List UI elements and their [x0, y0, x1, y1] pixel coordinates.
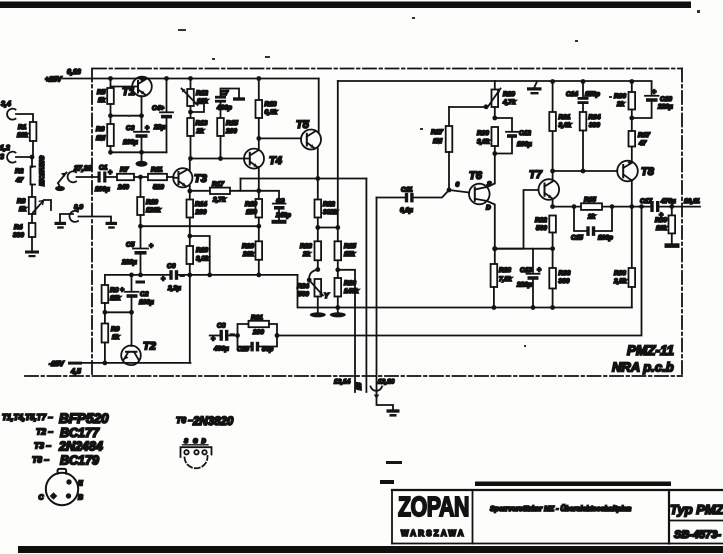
- svg-text:R19: R19: [245, 201, 257, 208]
- svg-text:100µ: 100µ: [123, 139, 138, 146]
- svg-text:+: +: [108, 170, 112, 177]
- svg-text:100µ: 100µ: [517, 141, 532, 148]
- svg-text:R35: R35: [584, 197, 596, 204]
- svg-text:R18: R18: [265, 101, 277, 108]
- wire row y312: [105, 311, 132, 313]
- svg-text:R20: R20: [242, 243, 254, 250]
- resistor R30: [477, 127, 498, 156]
- svg-text:2N3820: 2N3820: [192, 416, 234, 428]
- capacitor C11: [377, 187, 450, 215]
- svg-text:T6 –: T6 –: [176, 415, 193, 425]
- wire connector 13,14 line: [338, 270, 355, 392]
- wire right top rail: [338, 80, 652, 82]
- svg-text:T6: T6: [469, 170, 483, 182]
- svg-text:T7: T7: [529, 169, 543, 181]
- connector 8,9 shield: [55, 204, 118, 229]
- svg-text:R36: R36: [614, 93, 626, 100]
- svg-text:240p: 240p: [275, 212, 291, 219]
- potentiometer R3: [17, 197, 51, 223]
- svg-text:G: G: [193, 439, 198, 445]
- resistor R18: [256, 76, 278, 141]
- resistor R15: [217, 118, 238, 161]
- wire T6 source to R30 node: [487, 154, 495, 188]
- svg-text:47: 47: [15, 177, 24, 184]
- svg-text:C5: C5: [126, 242, 135, 249]
- svg-text:T8 –: T8 –: [32, 455, 49, 465]
- svg-text:C10: C10: [237, 346, 249, 353]
- note NRA p.c.b: [612, 360, 674, 375]
- svg-text:400p: 400p: [216, 105, 232, 112]
- svg-text:NRA p.c.b: NRA p.c.b: [612, 360, 674, 375]
- resistor R27: [431, 107, 452, 192]
- connector 3,4: [1, 101, 33, 122]
- svg-text:2,7k: 2,7k: [212, 197, 226, 204]
- svg-text:15: 15: [356, 382, 363, 390]
- svg-text:PMZ-11: PMZ-11: [627, 343, 674, 358]
- svg-text:D: D: [486, 205, 491, 212]
- svg-text:C14: C14: [566, 91, 578, 98]
- svg-text:T5: T5: [296, 119, 310, 131]
- wire row R22 bottom: [318, 225, 340, 230]
- resistor R37: [629, 131, 651, 147]
- svg-text:C15: C15: [571, 235, 583, 242]
- wire row y248: [495, 248, 553, 250]
- svg-text:7,5k: 7,5k: [499, 276, 512, 283]
- svg-text:470µ: 470µ: [660, 198, 676, 205]
- svg-text:22µ: 22µ: [153, 124, 165, 131]
- capacitor C16: [632, 82, 673, 119]
- svg-text:100p: 100p: [598, 235, 613, 242]
- wire bottom rail y307: [298, 275, 632, 308]
- svg-text:+: +: [161, 276, 165, 283]
- dash-dot pcb frame bottom: [25, 375, 682, 377]
- svg-text:2k: 2k: [196, 128, 205, 135]
- top border bar: [0, 2, 691, 9]
- svg-text:R30: R30: [477, 130, 489, 137]
- svg-text:8,9: 8,9: [74, 204, 83, 211]
- svg-text:R8: R8: [110, 287, 119, 294]
- svg-text:R15: R15: [226, 120, 238, 127]
- svg-text:T8: T8: [641, 166, 655, 178]
- svg-text:10k: 10k: [17, 132, 28, 139]
- svg-text:1M: 1M: [433, 138, 443, 145]
- potentiometer R12: [182, 76, 209, 114]
- capacitor C13: [516, 249, 541, 310]
- wire R16 column to -25V: [189, 275, 191, 363]
- svg-text:BC179: BC179: [60, 454, 99, 468]
- legend line4: [32, 454, 99, 468]
- wire base row T4: [191, 158, 245, 160]
- wire negative row y275: [105, 273, 298, 278]
- pinout TO18 case: [39, 469, 84, 505]
- svg-text:R13: R13: [196, 120, 208, 127]
- svg-text:150p: 150p: [585, 91, 600, 98]
- resistor R10: [137, 177, 161, 229]
- ground blob T1 cell: [136, 152, 148, 167]
- wire row y226: [141, 225, 259, 227]
- resistor R7: [117, 167, 148, 192]
- transistor T3: [173, 159, 207, 194]
- svg-text:3: 3: [0, 154, 4, 161]
- svg-text:R3: R3: [17, 198, 26, 205]
- resistor R2 bracket: [15, 157, 35, 197]
- label 10,11 output: [684, 198, 700, 205]
- resistor R11: [148, 167, 174, 192]
- legend T6 type: [176, 415, 234, 428]
- svg-text:560: 560: [298, 291, 309, 298]
- svg-text:R31: R31: [559, 114, 571, 121]
- svg-text:EICHUNG: EICHUNG: [39, 156, 46, 186]
- connector 1,2: [0, 141, 34, 163]
- resistor R14: [187, 191, 208, 238]
- node -25V rail: [49, 361, 191, 376]
- svg-text:4,7k: 4,7k: [502, 99, 516, 106]
- capacitor C9: [259, 191, 291, 224]
- svg-text:20k: 20k: [242, 251, 254, 258]
- svg-text:R25: R25: [344, 243, 356, 250]
- capacitor C17: [640, 198, 676, 219]
- transistor T7: [495, 82, 559, 249]
- svg-text:1k: 1k: [98, 97, 106, 104]
- svg-text:R38: R38: [614, 270, 626, 277]
- capacitor C1: [95, 165, 117, 194]
- svg-text:100µ: 100µ: [139, 299, 154, 306]
- svg-text:13,14: 13,14: [334, 379, 351, 386]
- svg-text:R4: R4: [14, 224, 23, 231]
- svg-text:T3 –: T3 –: [34, 441, 51, 451]
- svg-text:3,6k: 3,6k: [477, 139, 490, 146]
- svg-text:0,16: 0,16: [67, 69, 81, 76]
- title block ink smudge: [380, 480, 671, 486]
- resistor R25: [335, 81, 357, 272]
- svg-text:E: E: [78, 481, 83, 488]
- svg-text:R12: R12: [196, 90, 208, 97]
- svg-text:C4+: C4+: [152, 105, 164, 112]
- ground top right rail: [527, 82, 542, 95]
- wire output row: [553, 204, 700, 209]
- svg-text:120k: 120k: [146, 207, 161, 214]
- svg-text:R23: R23: [300, 243, 312, 250]
- svg-text:400µ: 400µ: [213, 346, 229, 353]
- resistor R32: [535, 216, 556, 252]
- svg-text:220µ: 220µ: [121, 259, 137, 266]
- label EICHUNG: [39, 156, 46, 186]
- transistor T1: [111, 76, 152, 116]
- svg-text:Sperrverstärker MZ - Übersicht: Sperrverstärker MZ - Übersichtsschaltpla…: [490, 504, 631, 513]
- svg-text:4,5: 4,5: [70, 369, 81, 376]
- logo ZOPAN: [398, 491, 469, 523]
- wire emitter row T1: [108, 113, 144, 118]
- svg-text:0,1µ: 0,1µ: [400, 207, 413, 214]
- resistor R36: [614, 79, 635, 131]
- svg-text:R2: R2: [15, 168, 24, 175]
- resistor R1: [17, 122, 36, 141]
- capacitor C8: [210, 323, 238, 353]
- svg-text:T2: T2: [143, 341, 156, 353]
- svg-text:6: 6: [456, 182, 460, 189]
- svg-text:R27: R27: [431, 129, 443, 136]
- svg-text:240: 240: [117, 184, 129, 191]
- capacitor C7: [215, 89, 245, 119]
- capacitor C2: [120, 275, 154, 315]
- svg-text:R16: R16: [196, 247, 208, 254]
- svg-text:200: 200: [252, 329, 264, 336]
- svg-text:R32: R32: [535, 217, 547, 224]
- svg-text:2,2µ: 2,2µ: [167, 285, 181, 292]
- svg-text:2k: 2k: [587, 214, 596, 221]
- wire feedback row y178: [241, 176, 367, 181]
- svg-text:R14: R14: [195, 201, 207, 208]
- svg-text:47: 47: [638, 140, 647, 147]
- svg-text:WARSZAWA: WARSZAWA: [401, 529, 466, 538]
- svg-text:1k: 1k: [112, 334, 120, 341]
- capacitor C12: [495, 118, 532, 154]
- wire connector 12,16 line: [376, 198, 378, 393]
- svg-text:11k: 11k: [110, 295, 121, 302]
- pinout 2N3820 package: [181, 439, 212, 468]
- resistor R16 with bypass loop: [187, 236, 213, 277]
- svg-text:R5: R5: [97, 89, 106, 96]
- transistor T6 fet: [449, 170, 492, 212]
- svg-text:3,4: 3,4: [1, 101, 11, 108]
- svg-text:392k: 392k: [323, 209, 338, 216]
- logo WARSZAWA: [401, 529, 466, 538]
- svg-text:ZOPAN: ZOPAN: [398, 491, 469, 523]
- resistor R31: [549, 79, 571, 131]
- wire lower row T1 cell: [108, 150, 166, 155]
- svg-text:2,5k: 2,5k: [613, 278, 627, 285]
- svg-text:R28: R28: [499, 267, 511, 274]
- resistor R33: [549, 249, 571, 310]
- resistor R4: [13, 223, 35, 250]
- note PMZ-11: [627, 343, 674, 358]
- capacitor C5: [121, 226, 153, 283]
- svg-text:R33: R33: [559, 270, 571, 277]
- svg-text:10,11: 10,11: [684, 198, 700, 205]
- svg-text:300: 300: [559, 278, 570, 285]
- svg-text:−: −: [180, 273, 184, 280]
- resistor R34: [580, 112, 601, 173]
- svg-text:BFP520: BFP520: [59, 411, 109, 426]
- svg-text:1M: 1M: [96, 135, 106, 142]
- transistor T5: [259, 79, 321, 179]
- svg-text:C6: C6: [167, 263, 176, 270]
- capacitor C15: [571, 207, 613, 242]
- resistor R8: [102, 275, 121, 315]
- svg-text:R37: R37: [638, 132, 650, 139]
- legend line3: [34, 440, 103, 454]
- resistor R35: [581, 197, 602, 221]
- resistor R23: [300, 228, 321, 272]
- dash-dot pcb frame right: [681, 69, 683, 377]
- legend line2: [36, 426, 100, 440]
- ground under R4: [25, 251, 39, 258]
- title text: [490, 504, 631, 513]
- svg-text:C8: C8: [217, 323, 226, 330]
- svg-text:2k: 2k: [616, 101, 625, 108]
- svg-text:R7: R7: [120, 167, 129, 174]
- svg-text:C12: C12: [519, 130, 531, 137]
- type PMZ text: [670, 502, 723, 517]
- eichung probe arrow: [55, 173, 67, 192]
- resistor R6: [96, 116, 114, 153]
- svg-text:330: 330: [589, 122, 600, 129]
- svg-text:S: S: [184, 439, 188, 445]
- svg-text:SB-4573-: SB-4573-: [674, 529, 721, 541]
- legend line1: [2, 411, 109, 426]
- svg-text:Typ PMZ-: Typ PMZ-: [670, 502, 723, 517]
- svg-text:C1: C1: [99, 165, 108, 172]
- transistor T8: [617, 147, 655, 210]
- svg-text:D: D: [202, 439, 207, 445]
- svg-text:560: 560: [536, 225, 547, 232]
- svg-text:B: B: [78, 495, 83, 502]
- resistor R26: [330, 270, 359, 318]
- svg-text:10k: 10k: [656, 225, 667, 232]
- svg-text:T1: T1: [122, 86, 135, 98]
- svg-text:R6: R6: [96, 126, 105, 133]
- svg-text:T3: T3: [194, 173, 207, 185]
- capacitor C14: [566, 79, 600, 112]
- svg-text:T4: T4: [269, 155, 282, 167]
- svg-text:3,8k: 3,8k: [196, 256, 209, 263]
- dash-dot pcb frame left: [91, 69, 93, 377]
- svg-text:C11: C11: [401, 187, 413, 194]
- svg-text:200: 200: [225, 128, 237, 135]
- title block frame: [392, 490, 723, 544]
- resistor R38: [613, 207, 635, 308]
- svg-text:R29: R29: [503, 91, 515, 98]
- svg-text:R9: R9: [111, 326, 120, 333]
- svg-text:6,8k: 6,8k: [265, 109, 278, 116]
- svg-text:56p: 56p: [262, 346, 273, 353]
- svg-text:510: 510: [153, 184, 164, 191]
- wire T6 drain to T7 base node: [487, 201, 497, 251]
- svg-text:143k: 143k: [344, 288, 359, 295]
- wire feedback bottom y335: [277, 207, 642, 336]
- svg-text:R11: R11: [151, 167, 163, 174]
- svg-text:R39: R39: [655, 217, 667, 224]
- svg-text:1k: 1k: [19, 206, 27, 213]
- node +25V rail: [45, 69, 319, 84]
- scan noise specks: [128, 10, 700, 464]
- svg-text:+: +: [120, 287, 124, 294]
- svg-text:T2 –: T2 –: [36, 427, 53, 437]
- resistor R19: [245, 191, 262, 229]
- svg-text:200: 200: [195, 209, 207, 216]
- dash-dot pcb frame top: [93, 68, 682, 70]
- resistor R9: [102, 312, 120, 365]
- svg-text:T1,T4,T5,T7 –: T1,T4,T5,T7 –: [2, 413, 53, 422]
- wire connector 15 line: [365, 179, 367, 393]
- svg-text:R10: R10: [146, 199, 158, 206]
- connector arrow 12,16 ground: [371, 387, 400, 417]
- svg-text:R34: R34: [589, 114, 601, 121]
- resistor R39: [655, 207, 680, 248]
- svg-text:-25V: -25V: [49, 361, 65, 368]
- svg-text:12,16: 12,16: [378, 379, 395, 386]
- potentiometer R29: [449, 81, 516, 120]
- potentiometer R24: [297, 270, 330, 318]
- resistor R20: [242, 226, 262, 275]
- svg-text:2N2484: 2N2484: [58, 440, 103, 454]
- resistor R5: [97, 76, 114, 116]
- svg-text:220µ: 220µ: [516, 282, 532, 289]
- bottom border bar: [18, 546, 723, 553]
- svg-text:2k: 2k: [302, 251, 311, 258]
- SB number text: [674, 529, 721, 541]
- resistor R13: [187, 106, 208, 161]
- svg-text:C2: C2: [140, 291, 149, 298]
- connector 27,28 input: [68, 166, 97, 183]
- resistor R22: [315, 179, 338, 230]
- labels connector 13,14 15 12,16: [334, 379, 395, 391]
- svg-text:R17: R17: [212, 181, 224, 188]
- resistor R28: [491, 249, 512, 310]
- svg-text:220µ: 220µ: [657, 104, 673, 111]
- svg-text:C16: C16: [660, 96, 672, 103]
- svg-text:R22: R22: [323, 201, 335, 208]
- svg-text:150: 150: [246, 209, 257, 216]
- svg-text:R1: R1: [18, 124, 27, 131]
- svg-text:+: +: [211, 336, 215, 343]
- svg-text:BC177: BC177: [60, 426, 100, 440]
- svg-text:3,6k: 3,6k: [559, 122, 572, 129]
- capacitor C4: [152, 76, 173, 152]
- resistor R21 parallel block: [235, 315, 279, 338]
- capacitor C10 parallel block: [237, 336, 277, 354]
- svg-text:330: 330: [13, 232, 24, 239]
- transistor T2: [121, 312, 156, 365]
- wire base row T8: [553, 170, 618, 172]
- svg-text:+25V: +25V: [45, 77, 63, 84]
- svg-text:R24: R24: [297, 283, 309, 290]
- svg-text:R21: R21: [251, 315, 263, 322]
- svg-text:1,2: 1,2: [0, 145, 10, 152]
- svg-text:+: +: [149, 243, 153, 250]
- transistor T4: [244, 138, 282, 193]
- svg-text:15k: 15k: [344, 251, 355, 258]
- capacitor C3: [123, 116, 149, 153]
- svg-text:100µ: 100µ: [95, 186, 110, 193]
- capacitor C6: [161, 263, 184, 292]
- resistor R17: [190, 179, 259, 204]
